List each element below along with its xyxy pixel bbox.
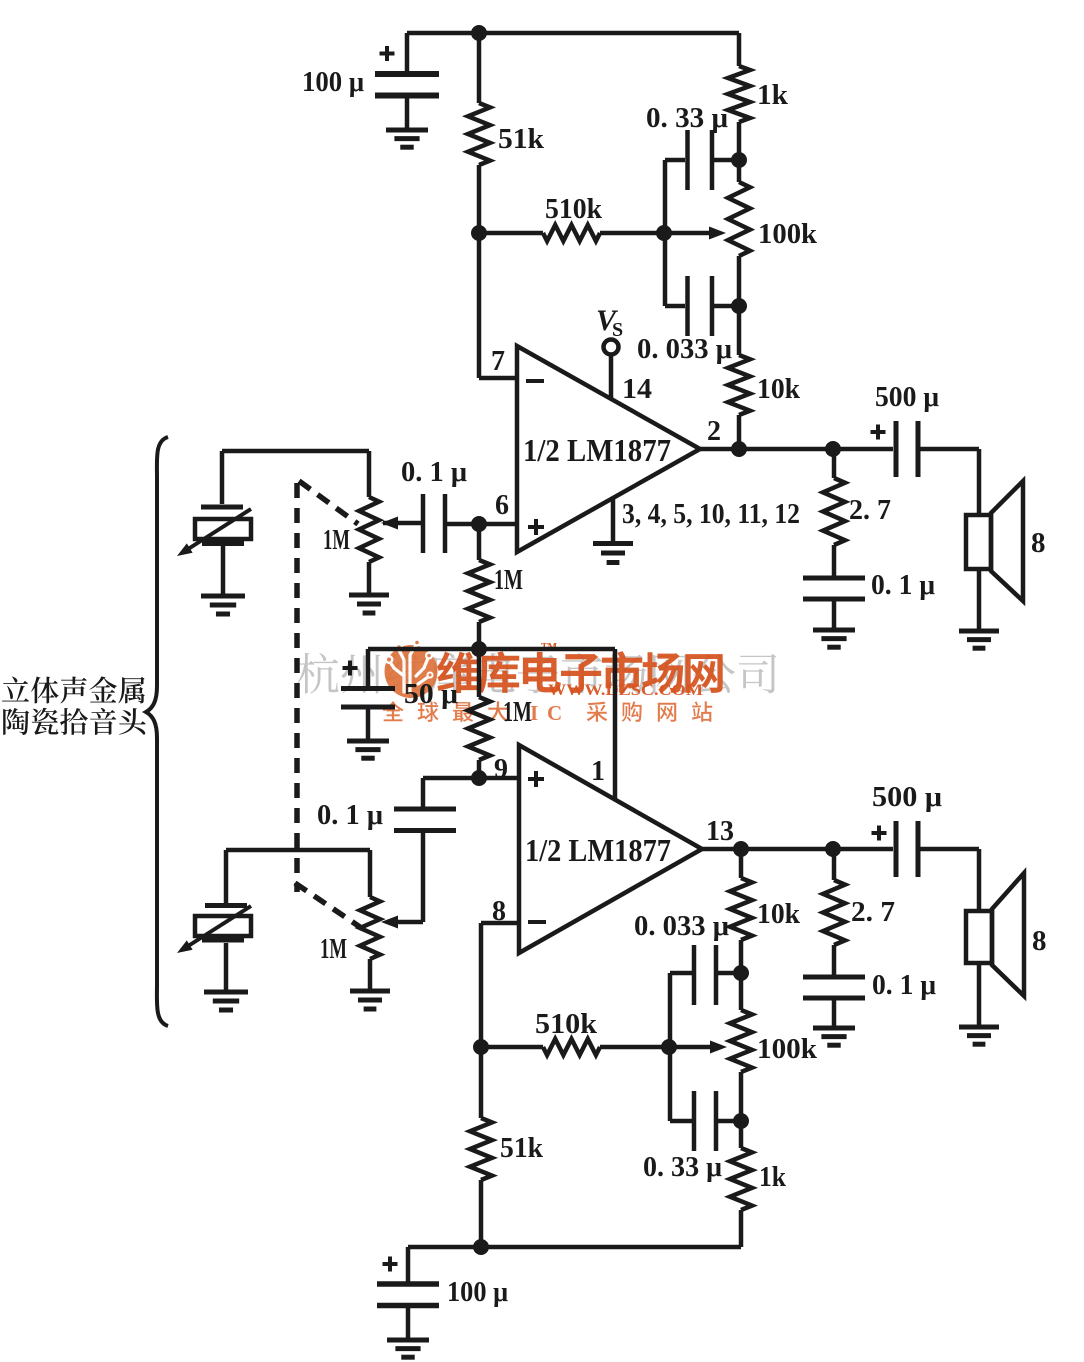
svg-text:8: 8 — [1031, 527, 1046, 559]
svg-text:500 μ: 500 μ — [872, 782, 942, 813]
U2 minus sign — [528, 920, 546, 924]
wire right vertical top — [737, 33, 742, 66]
coupling dash bottom diagonal — [295, 883, 360, 927]
capacitor 0.1u input bottom — [421, 778, 426, 807]
U1 plus sign — [528, 525, 544, 529]
wire pin1 — [613, 649, 618, 800]
svg-text:100 μ: 100 μ — [447, 1277, 508, 1308]
svg-text:0. 1 μ: 0. 1 μ — [401, 457, 467, 488]
resistor 10k top — [728, 355, 750, 415]
wire bias mid horizontal — [368, 647, 615, 652]
polarity + 50u — [343, 666, 358, 670]
svg-text:9: 9 — [494, 754, 508, 785]
label stereo ceramic pickup line1 — [2, 676, 145, 703]
ground speaker bottom — [959, 1025, 999, 1030]
op-amp U2 1/2 LM1877 — [519, 745, 702, 953]
svg-text:3, 4, 5, 10, 11, 12: 3, 4, 5, 10, 11, 12 — [622, 499, 800, 530]
svg-text:WWW.DZSC.COM: WWW.DZSC.COM — [548, 682, 703, 699]
capacitor 0.1u input top — [421, 494, 426, 553]
node bracket junction bottom — [661, 1039, 677, 1055]
ground speaker top — [959, 629, 999, 634]
svg-text:0. 1 μ: 0. 1 μ — [317, 800, 383, 831]
wire bottom rail — [408, 1245, 741, 1250]
pickup arrow top — [185, 509, 251, 551]
svg-text:10k: 10k — [757, 899, 800, 930]
op-amp U1 1/2 LM1877 — [517, 346, 700, 552]
capacitor 100u bottom — [406, 1247, 411, 1282]
wire left vertical to pin7 — [477, 33, 482, 103]
U2 plus sign — [528, 777, 544, 781]
capacitor 0.1u zobel bottom — [803, 975, 865, 980]
node 0.033u junction — [731, 298, 747, 314]
svg-text:500 μ: 500 μ — [875, 382, 939, 413]
resistor 510k bottom — [543, 1039, 600, 1055]
capacitor 0.33u bottom — [692, 1091, 697, 1151]
svg-text:51k: 51k — [498, 124, 544, 155]
capacitor 0.1u zobel top — [803, 576, 865, 581]
U1 minus sign — [526, 379, 544, 383]
svg-text:1M: 1M — [494, 565, 523, 596]
wiper arrow 1M top — [381, 517, 398, 530]
svg-text:14: 14 — [622, 374, 652, 405]
wire bracket 0.33u — [663, 160, 668, 233]
watermark red brand text — [437, 651, 723, 693]
capacitor 0.033u top — [685, 276, 690, 336]
speaker 8ohm top — [977, 449, 982, 515]
svg-text:2. 7: 2. 7 — [851, 897, 895, 928]
speaker 8ohm bottom — [977, 849, 982, 911]
node output junction 10k — [731, 441, 747, 457]
capacitor 0.033u bottom — [692, 945, 697, 1005]
node bottom rail junction — [473, 1239, 489, 1255]
node output junction zobel bottom — [825, 841, 841, 857]
svg-text:510k: 510k — [535, 1009, 597, 1040]
resistor 1M bias lower — [477, 649, 482, 697]
pickup element top — [222, 449, 369, 454]
ground 50u — [347, 739, 389, 744]
svg-text:510k: 510k — [545, 194, 602, 225]
svg-text:1k: 1k — [759, 1162, 786, 1193]
wire feedback 510k — [479, 231, 543, 236]
svg-text:2: 2 — [707, 416, 721, 447]
wiper arrow 100k top — [709, 227, 726, 240]
resistor 1k top — [728, 66, 750, 122]
svg-text:100k: 100k — [758, 219, 817, 250]
svg-text:C: C — [547, 701, 562, 725]
node feedback junction left — [471, 225, 487, 241]
svg-text:0. 1 μ: 0. 1 μ — [871, 570, 935, 601]
resistor 2.7 top — [832, 449, 837, 478]
polarity + 100u bottom — [383, 1262, 398, 1266]
polarity + 100u top — [380, 52, 395, 56]
svg-text:50 μ: 50 μ — [404, 679, 458, 710]
svg-text:1k: 1k — [757, 80, 788, 111]
capacitor 500u top — [894, 421, 899, 477]
node top rail junction — [471, 25, 487, 41]
resistor 2.7 bottom — [832, 849, 837, 880]
capacitor 50u mid — [366, 649, 371, 686]
wire output node bottom — [702, 847, 893, 852]
svg-text:100 μ: 100 μ — [302, 67, 364, 98]
terminal Vs — [604, 340, 619, 355]
brace stereo pickup — [146, 437, 168, 1026]
wire bracket 0.33u bottom — [668, 1047, 673, 1121]
node 0.033u junction bottom — [733, 965, 749, 981]
node pin6 junction — [471, 516, 487, 532]
node 0.33u junction bottom — [733, 1113, 749, 1129]
wire feedback 510k bottom — [481, 1045, 543, 1050]
capacitor 0.33u top — [685, 130, 690, 190]
ground pickup top — [201, 594, 245, 599]
resistor 51k bottom — [479, 1047, 484, 1118]
potentiometer 1M volume top — [367, 451, 372, 497]
wire pin8 — [481, 921, 519, 926]
ground zobel top — [813, 628, 855, 633]
resistor 10k bottom — [739, 849, 744, 878]
potentiometer 100k bottom — [730, 1010, 752, 1072]
svg-text:8: 8 — [1032, 925, 1047, 957]
ground U1 — [611, 497, 616, 542]
wire top supply rail — [407, 31, 739, 36]
node pin9 junction — [471, 770, 487, 786]
resistor 1M bias upper — [477, 524, 482, 560]
wire bracket 0.033u bottom — [668, 973, 673, 1047]
svg-text:1: 1 — [591, 756, 605, 787]
svg-text:1M: 1M — [503, 697, 532, 728]
wire pin9 — [423, 776, 519, 781]
ground pickup bottom — [204, 990, 248, 995]
label stereo ceramic pickup line2 — [3, 708, 146, 735]
svg-text:10k: 10k — [757, 374, 800, 405]
potentiometer 100k top — [728, 182, 750, 256]
pickup element bottom — [224, 850, 229, 903]
svg-text:0. 33 μ: 0. 33 μ — [646, 103, 728, 134]
svg-text:2. 7: 2. 7 — [849, 495, 891, 526]
wiper arrow 100k bottom — [710, 1041, 727, 1054]
svg-text:0. 1 μ: 0. 1 μ — [872, 970, 936, 1001]
coupling dash top diagonal — [299, 481, 358, 524]
svg-text:13: 13 — [706, 816, 734, 847]
watermark logo circle — [385, 639, 438, 699]
capacitor 500u bottom — [894, 821, 899, 877]
svg-text:1/2 LM1877: 1/2 LM1877 — [523, 432, 671, 468]
node feedback junction left bottom — [473, 1039, 489, 1055]
ground 1M volume bottom — [350, 989, 390, 994]
capacitor 100u top supply — [405, 33, 410, 71]
svg-text:S: S — [612, 319, 623, 341]
node output junction zobel — [825, 441, 841, 457]
node bias junction mid — [471, 641, 487, 657]
ground 100u top — [386, 128, 428, 133]
resistor 51k top — [468, 103, 490, 165]
coupling dashed line — [294, 483, 300, 892]
watermark gray company text — [297, 653, 776, 694]
wiper arrow 1M bottom — [381, 916, 398, 929]
resistor 1k bottom — [730, 1148, 752, 1210]
svg-text:0. 033 μ: 0. 033 μ — [637, 334, 732, 365]
wiper wire 1M bottom — [398, 920, 423, 925]
resistor 510k top — [543, 225, 600, 241]
ground 1M volume top — [349, 593, 389, 598]
svg-text:6: 6 — [495, 490, 509, 521]
pickup arrow bottom — [185, 906, 251, 948]
svg-text:1M: 1M — [323, 525, 350, 556]
wire output node top — [700, 447, 893, 452]
potentiometer 1M volume bottom — [226, 848, 370, 853]
svg-text:0. 33 μ: 0. 33 μ — [643, 1152, 722, 1183]
node output junction 10k bottom — [733, 841, 749, 857]
svg-text:51k: 51k — [500, 1133, 543, 1164]
node bracket junction top — [656, 225, 672, 241]
polarity + 500u top — [871, 430, 886, 434]
polarity + 500u bottom — [872, 831, 887, 835]
ground 100u bottom — [387, 1338, 429, 1343]
svg-text:100k: 100k — [757, 1034, 817, 1065]
svg-text:1/2 LM1877: 1/2 LM1877 — [525, 832, 671, 868]
watermark slogan text — [382, 701, 508, 722]
svg-text:0. 033 μ: 0. 033 μ — [634, 911, 729, 942]
svg-text:1M: 1M — [320, 934, 347, 965]
svg-text:7: 7 — [491, 346, 505, 377]
wire bracket 0.033u — [663, 233, 668, 306]
node 0.33u junction — [731, 152, 747, 168]
ground zobel bottom — [813, 1026, 855, 1031]
